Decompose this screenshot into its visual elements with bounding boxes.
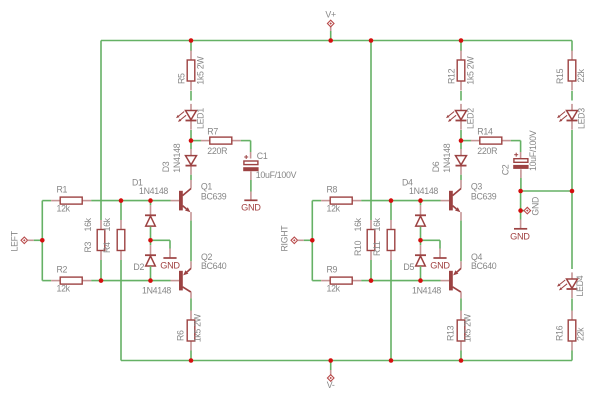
svg-text:R13: R13 (446, 325, 456, 341)
svg-text:12k: 12k (327, 284, 341, 294)
svg-text:D3: D3 (161, 161, 171, 172)
svg-text:220R: 220R (207, 146, 227, 156)
svg-text:Q1: Q1 (201, 182, 213, 192)
svg-text:LED4: LED4 (575, 275, 585, 296)
svg-text:16k: 16k (353, 217, 363, 231)
svg-text:D2: D2 (133, 262, 144, 272)
svg-text:R9: R9 (327, 265, 338, 275)
svg-text:R14: R14 (477, 126, 493, 136)
svg-text:12k: 12k (57, 204, 71, 214)
svg-text:GND: GND (510, 231, 530, 241)
svg-text:16k: 16k (83, 217, 93, 231)
svg-text:BC640: BC640 (471, 261, 497, 271)
svg-text:1k5 2W: 1k5 2W (196, 56, 206, 85)
svg-text:BC639: BC639 (471, 191, 497, 201)
svg-text:R11: R11 (372, 241, 382, 256)
svg-text:GND: GND (160, 261, 180, 271)
svg-text:R5: R5 (177, 73, 187, 84)
svg-text:D6: D6 (431, 161, 441, 172)
svg-text:1N4148: 1N4148 (139, 186, 168, 196)
svg-text:16k: 16k (102, 217, 112, 231)
svg-text:R4: R4 (102, 242, 112, 253)
svg-text:LED3: LED3 (577, 108, 587, 129)
svg-text:1N4148: 1N4148 (142, 285, 171, 295)
svg-text:R6: R6 (176, 330, 186, 341)
svg-text:R15: R15 (555, 68, 565, 84)
svg-text:R12: R12 (447, 68, 457, 84)
svg-text:R1: R1 (57, 185, 68, 195)
svg-text:1N4148: 1N4148 (442, 143, 452, 172)
svg-text:GND: GND (530, 197, 540, 216)
svg-text:R2: R2 (57, 265, 68, 275)
svg-text:R16: R16 (554, 325, 564, 341)
svg-text:Q3: Q3 (471, 182, 483, 192)
svg-text:1N4148: 1N4148 (409, 186, 438, 196)
svg-text:22k: 22k (576, 68, 586, 82)
svg-text:10uF/100V: 10uF/100V (256, 170, 297, 180)
svg-text:220R: 220R (477, 146, 497, 156)
svg-text:D5: D5 (403, 262, 414, 272)
svg-text:16k: 16k (372, 217, 382, 231)
svg-text:BC639: BC639 (201, 191, 227, 201)
svg-text:V-: V- (327, 380, 335, 390)
svg-text:12k: 12k (57, 284, 71, 294)
svg-text:R7: R7 (207, 126, 218, 136)
svg-text:1N4148: 1N4148 (412, 285, 441, 295)
svg-text:1k5 2W: 1k5 2W (466, 56, 476, 85)
svg-text:10uF/100V: 10uF/100V (528, 130, 538, 171)
svg-text:GND: GND (241, 203, 261, 213)
svg-text:1N4148: 1N4148 (172, 143, 182, 172)
svg-text:1k5 2W: 1k5 2W (193, 313, 203, 342)
svg-text:LED2: LED2 (466, 108, 476, 129)
svg-text:RIGHT: RIGHT (279, 225, 289, 252)
svg-text:LED1: LED1 (196, 108, 206, 129)
svg-text:GND: GND (430, 261, 450, 271)
svg-text:1k5 2W: 1k5 2W (463, 313, 473, 342)
svg-text:LEFT: LEFT (9, 230, 19, 251)
svg-text:R8: R8 (327, 185, 338, 195)
svg-text:BC640: BC640 (201, 261, 227, 271)
svg-text:22k: 22k (576, 327, 586, 341)
svg-text:R10: R10 (353, 240, 363, 256)
svg-text:C1: C1 (257, 151, 268, 161)
svg-text:R3: R3 (83, 241, 93, 252)
svg-text:V+: V+ (325, 10, 336, 20)
svg-text:12k: 12k (327, 204, 341, 214)
svg-text:C2: C2 (500, 164, 510, 175)
